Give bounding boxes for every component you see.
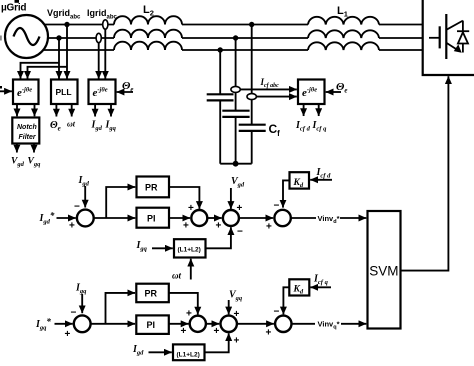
svg-text:ωt: ωt <box>67 120 76 129</box>
svg-text:−: − <box>274 201 280 212</box>
block SVM <box>368 211 401 329</box>
wire wt up into L1+L2 <box>190 259 192 280</box>
svg-text:−: − <box>71 308 77 319</box>
node cap tap phase B dot <box>233 35 238 40</box>
diode D1 line lower <box>462 44 464 53</box>
wire Vinvd to SVM <box>340 217 366 219</box>
AC source sine wave <box>14 28 40 45</box>
capacitor Cf phase A <box>239 125 266 131</box>
svg-text:Vgridabc: Vgridabc <box>47 8 81 21</box>
wire cap branch A <box>251 25 253 125</box>
wire S4 out to Vinvd label <box>291 217 316 219</box>
svg-text:−: − <box>274 307 280 318</box>
wire Igd into L1+L2 q <box>149 351 172 353</box>
stray gray mark left edge <box>0 36 2 41</box>
block L1+L2 (q axis) <box>173 344 205 360</box>
wire theta_e into U3 <box>326 91 341 93</box>
IGBT Q1 gate bar <box>439 26 441 48</box>
wire branch up to PR q <box>106 293 136 324</box>
svg-text:Igq*: Igq* <box>35 317 51 332</box>
wire Vgrid B branch to dq transform <box>21 63 60 79</box>
svg-text:Icf d: Icf d <box>295 120 311 133</box>
svg-text:Θe: Θe <box>336 81 348 95</box>
svg-text:Θe: Θe <box>50 120 61 133</box>
wire Notch out Vgd <box>16 144 18 153</box>
summing junction S8 <box>275 316 291 332</box>
svg-text:ωt: ωt <box>172 271 182 281</box>
inductor L2 phase B <box>114 30 182 38</box>
capacitor Cf phase B <box>222 111 249 117</box>
inductor L1 phase A <box>308 17 379 25</box>
svg-text:Vgd: Vgd <box>11 157 25 169</box>
wire U3 out Icfd <box>303 104 305 116</box>
block Kd (q axis) <box>289 279 309 295</box>
wire phase C (bottom grid line) <box>32 49 114 51</box>
summing junction S5 <box>74 315 91 332</box>
wire cap A lower <box>251 131 253 164</box>
block Notch Filter <box>12 118 39 144</box>
block dq transform U2 (Igrid) <box>89 80 116 105</box>
IGBT Q1 emitter line with arrow <box>446 43 458 51</box>
svg-text:PI: PI <box>147 214 156 224</box>
svg-text:+: + <box>234 336 240 347</box>
wire U1 to Notch right <box>34 104 36 116</box>
block PI (q axis) <box>136 315 169 334</box>
svg-text:−: − <box>237 227 243 238</box>
svg-text:Igd*: Igd* <box>39 211 55 226</box>
svg-text:Vgd: Vgd <box>231 176 245 189</box>
wire Icfd into Kd <box>310 179 332 181</box>
svg-text:+: + <box>214 326 220 337</box>
wire Vgrid A branch to dq transform <box>28 67 68 79</box>
wire Igrid A sense down <box>104 25 106 79</box>
wire Vgq down into S7 <box>228 300 230 314</box>
svg-text:PI: PI <box>147 320 156 330</box>
wire S8 out to Vinvq label <box>292 323 316 325</box>
node cap tap phase C dot <box>218 47 223 52</box>
wire SVM out feedback to inverter <box>401 76 449 270</box>
CT Icf phase A <box>247 94 256 100</box>
wire S6 to S7 <box>206 323 219 325</box>
wire phase B (middle grid line) <box>30 37 114 39</box>
svg-text:Igq: Igq <box>105 120 117 133</box>
svg-text:Vinvd*: Vinvd* <box>318 214 340 225</box>
svg-text:Igq: Igq <box>75 283 87 296</box>
diode D1 triangle <box>458 32 468 43</box>
block dq transform U1 (Vgrid) <box>13 80 39 105</box>
svg-text:+: + <box>216 221 222 232</box>
AC source µGrid circle <box>5 15 48 58</box>
node cap rail junction dot <box>233 161 239 167</box>
svg-text:PR: PR <box>145 183 158 193</box>
diode D1 cathode bar <box>457 30 469 32</box>
svg-text:Igridabc: Igridabc <box>87 8 118 21</box>
node cap tap phase A dot <box>249 22 254 27</box>
wire L1+L2 out up into S3 <box>206 227 231 248</box>
wire Vgd down into S3 <box>230 188 232 209</box>
wire S5 out to PI q <box>91 323 136 325</box>
node Vgrid phase A junction dot <box>64 22 69 27</box>
block PI (d axis) <box>137 208 170 228</box>
summing junction S7 <box>221 316 237 332</box>
block L1+L2 (d axis) <box>174 239 206 257</box>
svg-text:+: + <box>186 309 192 320</box>
svg-text:Cf: Cf <box>269 122 281 138</box>
svg-text:(L1+L2): (L1+L2) <box>177 352 200 359</box>
wire cap branch C <box>219 50 221 94</box>
svg-text:−: − <box>74 202 80 213</box>
wire U2 out Igd <box>94 104 96 117</box>
wire Vinvq to SVM <box>341 323 366 325</box>
wire S7 to S8 <box>237 323 274 325</box>
CT Icf phase B <box>231 86 240 92</box>
svg-text:+: + <box>234 309 240 320</box>
wire cap C lower <box>219 100 221 163</box>
wire Icf A tap to transform <box>252 96 297 98</box>
svg-text:L1: L1 <box>337 5 348 19</box>
block dq transform U3 (Icf) <box>298 80 325 105</box>
wire cap common rail <box>220 163 252 165</box>
svg-text:+: + <box>266 222 272 233</box>
svg-text:Igq: Igq <box>136 240 148 253</box>
CT Igrid phase A <box>103 20 108 29</box>
wire branch up to PR <box>106 187 135 218</box>
wire Icfq into Kd q <box>310 286 331 288</box>
svg-text:Vgq: Vgq <box>229 290 243 303</box>
svg-text:Igd: Igd <box>78 175 90 188</box>
wire Igq* into sum S5 <box>55 323 73 325</box>
svg-text:(L1+L2): (L1+L2) <box>178 247 201 254</box>
svg-text:+: + <box>65 329 71 340</box>
svg-text:+: + <box>69 221 75 232</box>
block Kd (d axis) <box>290 172 310 188</box>
block PR (d axis) <box>137 177 170 198</box>
inverter box <box>423 0 474 75</box>
svg-text:Icf q: Icf q <box>313 274 329 287</box>
svg-text:Vgq: Vgq <box>28 157 42 169</box>
wire PI out to S2 <box>169 217 190 219</box>
svg-text:+: + <box>266 328 272 339</box>
inductor L1 phase C <box>308 42 379 50</box>
wire PR out to sum S2 <box>169 187 199 209</box>
wire phase A (top grid line) <box>30 24 114 26</box>
wire U3 out Icfq <box>318 104 320 116</box>
wire Kd q down into S8 <box>283 287 289 314</box>
svg-text:+: + <box>188 203 194 214</box>
wire U2 out Igq <box>110 104 112 117</box>
wire cap B lower <box>235 117 237 164</box>
wire PI q out to S6 <box>169 323 189 325</box>
wire PLL out wt <box>71 104 73 117</box>
svg-text:+: + <box>183 221 189 232</box>
svg-text:Icf abc: Icf abc <box>260 77 280 89</box>
wire Igrid B sense down <box>98 38 100 79</box>
wire U1 to Notch left <box>16 104 18 116</box>
stray mark left edge <box>0 86 2 89</box>
IGBT Q1 collector line <box>446 21 463 30</box>
stray mark top edge <box>15 0 20 3</box>
inductor L1 phase B <box>308 30 379 38</box>
wire Vgrid B sense down to PLL <box>58 38 60 79</box>
wire PLL out theta <box>55 104 57 117</box>
svg-text:Θe: Θe <box>122 80 134 94</box>
svg-text:Vinvq*: Vinvq* <box>318 320 340 331</box>
summing junction S2 <box>191 210 207 226</box>
svg-text:Filter: Filter <box>19 134 37 141</box>
IGBT Q1 gate lead <box>429 37 440 39</box>
wire Igd* into sum S1 <box>57 217 76 219</box>
svg-text:PLL: PLL <box>56 87 72 97</box>
svg-text:Igd: Igd <box>132 344 144 357</box>
svg-text:Igd: Igd <box>91 120 103 133</box>
CT Igrid phase B <box>96 33 101 42</box>
summing junction S1 <box>77 210 94 227</box>
diode D1 line upper <box>462 21 464 32</box>
wire Icf B tap to transform <box>236 88 297 90</box>
wire theta_e into U2 <box>117 91 133 93</box>
wire PR q out to sum S6 <box>169 293 198 315</box>
inductor L2 phase C <box>114 42 182 50</box>
wire Kd down into S4 <box>283 180 290 207</box>
wire Vgrid A sense down to PLL <box>66 25 68 79</box>
inductor L2 phase A <box>114 16 182 24</box>
svg-text:PR: PR <box>145 289 158 299</box>
svg-text:+: + <box>237 203 243 214</box>
svg-text:Icf d: Icf d <box>316 167 332 180</box>
wire L1+L2 q out up into S7 <box>205 333 229 352</box>
svg-text:SVM: SVM <box>369 263 398 278</box>
summing junction S3 <box>223 210 239 226</box>
wire S2 to S3 <box>207 217 221 219</box>
svg-text:Icf q: Icf q <box>312 120 328 133</box>
wire Igq into L1+L2 <box>152 247 173 249</box>
capacitor Cf phase C <box>207 94 234 100</box>
wire Igq down into S5 <box>81 294 83 313</box>
summing junction S4 <box>274 210 290 226</box>
svg-text:L2: L2 <box>143 4 154 18</box>
svg-text:Notch: Notch <box>17 124 37 131</box>
svg-text:+: + <box>181 326 187 337</box>
wire theta input stub into U1 <box>0 90 12 92</box>
wire Igd down into S1 <box>84 186 86 208</box>
wire S3 to S4 <box>239 217 273 219</box>
wire Notch out Vgq <box>33 144 35 153</box>
svg-text:µGrid: µGrid <box>1 3 26 14</box>
block PR (q axis) <box>136 284 169 303</box>
summing junction S6 <box>190 316 206 332</box>
node Vgrid phase B junction dot <box>56 35 61 40</box>
IGBT Q1 main bar <box>445 14 447 59</box>
block PLL <box>51 80 78 105</box>
wire S1 out to PI <box>94 217 136 219</box>
wire cap branch B <box>235 38 237 111</box>
